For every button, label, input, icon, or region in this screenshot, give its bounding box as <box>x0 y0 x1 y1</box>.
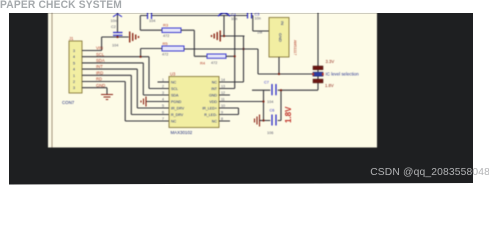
svg-text:R3: R3 <box>163 23 169 28</box>
svg-text:INT: INT <box>96 64 103 69</box>
title <box>0 0 122 11</box>
svg-text:14: 14 <box>221 78 225 82</box>
svg-text:GND: GND <box>96 83 105 88</box>
svg-text:IN: IN <box>280 21 285 25</box>
svg-text:R_DRV: R_DRV <box>171 113 184 117</box>
svg-text:11: 11 <box>221 98 225 102</box>
svg-text:NC: NC <box>212 119 218 123</box>
svg-text:472: 472 <box>162 53 168 57</box>
svg-text:3.3V: 3.3V <box>326 59 335 64</box>
svg-text:104: 104 <box>112 44 118 48</box>
svg-text:104: 104 <box>267 100 273 104</box>
top bus wire <box>140 15 253 17</box>
svg-text:4: 4 <box>73 55 75 59</box>
svg-text:R4: R4 <box>200 61 206 66</box>
ground G3 (left-pointing) <box>212 31 221 42</box>
svg-text:7: 7 <box>162 117 164 121</box>
wire LED bracket <box>219 108 239 115</box>
net labels <box>96 46 105 88</box>
svg-text:VIN: VIN <box>96 46 103 51</box>
svg-text:1.8V: 1.8V <box>325 83 334 88</box>
capacitor C4 (arc) <box>218 13 237 36</box>
svg-text:104: 104 <box>149 19 155 23</box>
svg-text:MAX30102: MAX30102 <box>171 130 193 135</box>
wire RD row <box>82 82 169 122</box>
node R5 tap <box>140 56 142 58</box>
svg-text:R_LED-: R_LED- <box>204 113 218 117</box>
node R4 junction <box>234 55 236 57</box>
svg-text:472: 472 <box>163 34 169 38</box>
wire 1.8V rail <box>252 89 318 91</box>
svg-text:2: 2 <box>73 80 75 84</box>
IC U3 MAX30102 <box>146 72 225 136</box>
resistor R4 <box>200 16 235 89</box>
svg-text:3: 3 <box>73 86 75 90</box>
svg-text:5: 5 <box>162 104 164 108</box>
svg-text:10n: 10n <box>111 19 117 23</box>
svg-text:10: 10 <box>221 104 225 108</box>
svg-text:U3: U3 <box>170 72 176 77</box>
sheet border line <box>51 13 53 148</box>
ground G2 (right-pointing) <box>130 32 139 43</box>
connector J1 <box>62 36 82 105</box>
svg-text:NC: NC <box>212 80 218 84</box>
svg-text:GND: GND <box>209 93 217 97</box>
capacitor C6 <box>260 90 282 135</box>
right stubs of U3 <box>219 95 230 121</box>
svg-text:9: 9 <box>221 111 223 115</box>
svg-text:SDA: SDA <box>171 93 179 97</box>
node C2/VIN junction <box>116 36 118 38</box>
svg-text:SDA: SDA <box>96 58 105 63</box>
wire ground bus <box>220 35 244 37</box>
svg-text:3: 3 <box>73 49 75 53</box>
svg-text:NC: NC <box>171 119 177 123</box>
wire to U3 right pin1 <box>219 36 244 82</box>
svg-text:IR_DRV: IR_DRV <box>171 106 185 110</box>
svg-text:472: 472 <box>211 61 217 65</box>
jumper level selector <box>312 13 359 90</box>
svg-text:1M: 1M <box>257 31 262 35</box>
svg-text:4: 4 <box>73 68 75 72</box>
svg-text:5: 5 <box>73 61 75 65</box>
wire SDA row <box>82 63 169 95</box>
capacitor 104 (top) <box>148 13 156 23</box>
capacitor C3 <box>248 13 261 21</box>
node cross R5 bus <box>242 48 244 50</box>
capacitor C7 <box>264 81 276 105</box>
svg-text:12: 12 <box>221 91 225 95</box>
wire GND row <box>82 88 107 95</box>
ground G5 (PGND, left-pointing bars) <box>141 97 146 107</box>
svg-text:C2: C2 <box>111 25 116 29</box>
sheet background <box>48 13 377 148</box>
node reg out <box>278 73 280 75</box>
svg-text:RD: RD <box>96 77 102 82</box>
svg-text:R5: R5 <box>163 41 169 46</box>
svg-text:VDD: VDD <box>209 100 217 104</box>
svg-text:SCL: SCL <box>96 52 105 57</box>
wire ground to C6 <box>260 120 263 122</box>
svg-text:C7: C7 <box>264 81 269 85</box>
watermark <box>370 167 489 178</box>
svg-text:CON7: CON7 <box>62 100 75 105</box>
svg-text:PGND: PGND <box>171 100 182 104</box>
schematic sheet <box>48 13 377 153</box>
svg-text:8: 8 <box>221 117 223 121</box>
svg-text:10n: 10n <box>255 17 261 21</box>
svg-text:IRD: IRD <box>96 70 103 75</box>
wire SCL row <box>82 57 169 89</box>
svg-text:GND: GND <box>278 33 283 42</box>
wire INT row <box>82 69 169 108</box>
ground G1 <box>101 95 113 100</box>
resistor R5 <box>141 41 313 74</box>
svg-text:106: 106 <box>267 131 273 135</box>
svg-text:J1: J1 <box>69 36 74 41</box>
svg-text:1.8V: 1.8V <box>284 106 293 123</box>
ground G4 (left-pointing bars) <box>255 115 260 127</box>
svg-text:SCL: SCL <box>171 87 178 91</box>
svg-text:IC level selection: IC level selection <box>326 72 360 77</box>
svg-text:1: 1 <box>73 74 75 78</box>
svg-text:1: 1 <box>162 78 164 82</box>
svg-text:NC: NC <box>171 80 177 84</box>
svg-text:AMS1117: AMS1117 <box>293 40 297 55</box>
dark video background <box>9 13 473 185</box>
capacitor C2 <box>111 13 123 48</box>
svg-text:2: 2 <box>162 85 164 89</box>
svg-text:INT: INT <box>211 87 218 91</box>
svg-text:4: 4 <box>162 98 164 102</box>
svg-text:3: 3 <box>162 91 164 95</box>
wire VDD <box>219 90 264 121</box>
resistor R3 <box>140 16 207 57</box>
svg-text:C6: C6 <box>270 109 275 113</box>
wire IRD row <box>82 75 169 114</box>
regulator U2 <box>253 16 297 75</box>
node C4 junction <box>223 35 225 37</box>
svg-text:13: 13 <box>221 85 225 89</box>
svg-text:6: 6 <box>162 111 164 115</box>
svg-text:IR_LED+: IR_LED+ <box>202 106 217 110</box>
wire VIN row <box>82 37 129 51</box>
